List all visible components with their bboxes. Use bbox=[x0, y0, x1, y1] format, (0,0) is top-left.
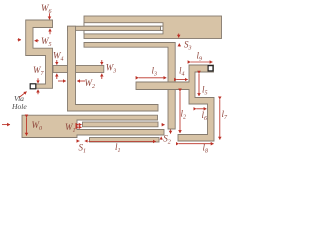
svg-text:W5: W5 bbox=[41, 36, 52, 48]
svg-text:l7: l7 bbox=[222, 109, 229, 121]
svg-text:W6: W6 bbox=[41, 3, 52, 15]
svg-text:W4: W4 bbox=[53, 51, 64, 63]
svg-text:S3: S3 bbox=[184, 40, 192, 52]
svg-text:l1: l1 bbox=[115, 142, 121, 154]
svg-text:W7: W7 bbox=[33, 65, 45, 77]
svg-text:Hole: Hole bbox=[11, 102, 27, 111]
svg-text:S1: S1 bbox=[79, 143, 87, 155]
svg-text:l9: l9 bbox=[197, 51, 203, 63]
svg-text:l4: l4 bbox=[179, 66, 185, 78]
svg-text:l6: l6 bbox=[202, 110, 208, 122]
svg-text:l2: l2 bbox=[181, 109, 187, 121]
svg-text:S2: S2 bbox=[163, 134, 171, 146]
svg-text:W3: W3 bbox=[106, 63, 117, 75]
svg-text:l3: l3 bbox=[152, 66, 158, 78]
svg-text:W2: W2 bbox=[85, 78, 96, 90]
svg-text:l8: l8 bbox=[203, 143, 209, 155]
svg-text:l5: l5 bbox=[202, 85, 208, 97]
